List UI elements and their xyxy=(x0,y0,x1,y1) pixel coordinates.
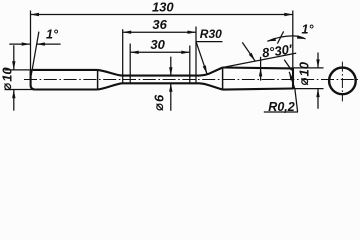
angle 1 deg left dim line segments xyxy=(9,43,60,45)
extension line x=196 for dim 36 xyxy=(195,27,197,84)
right head corner slant xyxy=(284,60,291,71)
extension line right end vertical xyxy=(292,11,294,69)
right fillet and cone bottom xyxy=(200,83,223,89)
extension line left end vertical xyxy=(30,11,32,70)
arrowhead 8deg30 leader1 xyxy=(249,53,255,61)
angle 1 deg left slant line xyxy=(31,32,39,76)
right head bottom edge xyxy=(223,89,293,90)
arrowhead 36 right xyxy=(188,31,197,34)
extension line x=130.2 for dim 30 xyxy=(129,44,131,84)
svg-text:36: 36 xyxy=(152,17,167,32)
svg-text:R30: R30 xyxy=(200,27,222,41)
svg-text:10: 10 xyxy=(297,61,312,76)
extension line top left xyxy=(5,69,31,71)
arrowhead R30 leader xyxy=(203,65,207,74)
R0,2 leader line xyxy=(289,72,297,112)
arrowhead dia10 right down xyxy=(316,59,319,68)
fillet R30 bottom left xyxy=(98,83,200,89)
arrowhead 130 left xyxy=(31,13,40,16)
arrowhead arc left xyxy=(267,38,276,42)
right fillet and cone top xyxy=(200,68,223,76)
centerline main axis xyxy=(24,79,359,81)
svg-text:R0,2: R0,2 xyxy=(268,100,294,114)
svg-text:30: 30 xyxy=(150,37,165,52)
specimen outline: left head xyxy=(31,70,36,90)
arrowhead 30 left xyxy=(130,51,139,54)
8deg30 leader line 2 xyxy=(260,57,262,81)
arrowhead 1deg left a xyxy=(22,42,31,45)
arrowhead dia10 left down xyxy=(12,61,15,70)
arrowhead R0,2 leader xyxy=(289,72,293,81)
arrowhead dia6 up xyxy=(169,83,172,92)
R0,2 leader shelf xyxy=(264,111,298,113)
fillet R30 top left xyxy=(98,70,200,76)
extension line top right xyxy=(293,67,324,69)
arrowhead dia6 down xyxy=(169,67,172,76)
8deg30 leader line 1 xyxy=(242,42,255,60)
right head end face xyxy=(292,68,294,88)
arrowhead dia10 right up xyxy=(316,89,319,98)
cone/head junction line xyxy=(222,68,224,90)
dimension line 30 xyxy=(130,51,190,53)
dimension line 36 xyxy=(123,31,196,33)
arrowhead 36 left xyxy=(123,31,132,34)
extension line bottom right xyxy=(293,88,324,90)
svg-text:130: 130 xyxy=(152,0,174,15)
arrowhead arc right xyxy=(297,35,306,39)
centerline end view vertical xyxy=(341,62,343,102)
right head top edge xyxy=(223,66,293,69)
dimension line 130 xyxy=(31,14,293,16)
svg-text:10: 10 xyxy=(0,67,15,82)
svg-text:1°: 1° xyxy=(46,27,59,41)
dia6 dimension line xyxy=(170,57,172,111)
left head top edge xyxy=(33,69,98,71)
R30 leader shelf xyxy=(196,41,223,43)
end view circle xyxy=(329,68,356,95)
angle 1 deg right arc xyxy=(267,36,305,41)
left head bottom edge xyxy=(35,88,97,90)
cone extension thin line xyxy=(223,53,297,67)
arrowhead 130 right xyxy=(284,13,293,16)
label dia10 left rotated xyxy=(0,67,15,91)
arrowhead 30 right xyxy=(181,51,190,54)
R30 leader line xyxy=(196,42,207,74)
extension line bottom left xyxy=(5,89,36,91)
angle 1 deg right slant tick xyxy=(277,31,283,43)
extension line x=122.7 for dim 36 xyxy=(122,29,124,83)
label dia6 rotated xyxy=(152,94,167,110)
dia10 right dimension line xyxy=(317,53,319,109)
svg-text:1°: 1° xyxy=(302,22,315,36)
dia10 left dimension line xyxy=(13,45,15,110)
label dia10 right rotated xyxy=(297,61,312,85)
extension line x=189.8 for dim 30 xyxy=(189,46,191,84)
arrowhead 1deg left b xyxy=(36,42,45,45)
svg-text:6: 6 xyxy=(152,94,167,102)
left head/fillet junction line xyxy=(97,70,99,90)
arrowhead 8deg30 leader2 xyxy=(259,68,262,77)
arrowhead dia10 left up xyxy=(12,90,15,99)
